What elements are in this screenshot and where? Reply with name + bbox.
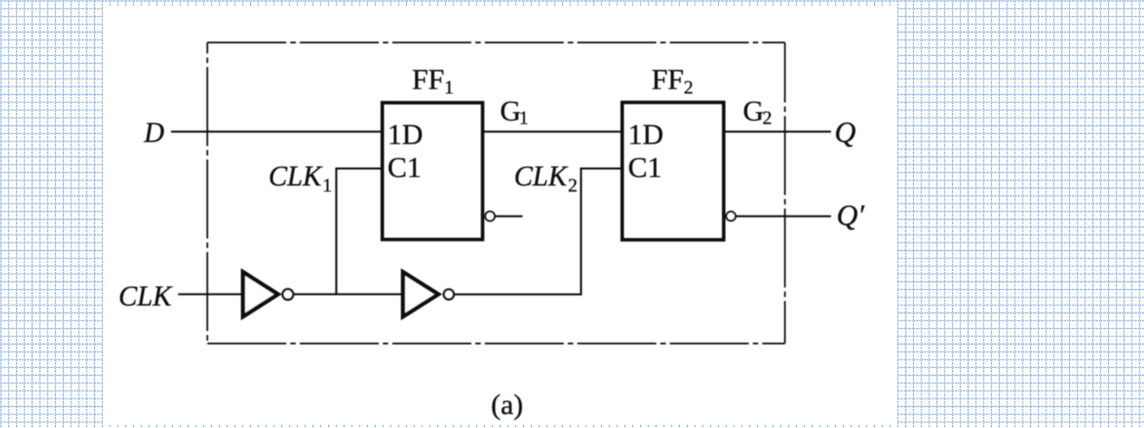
svg-text:2: 2: [684, 78, 694, 99]
net label G2: [743, 95, 772, 129]
wire Q output: [723, 131, 831, 133]
svg-text:FF: FF: [652, 64, 684, 96]
svg-text:G: G: [743, 95, 764, 127]
flip-flop FF1 box: [382, 103, 482, 240]
wire CLK2 net (U2 output to C1 of FF2): [453, 169, 622, 295]
svg-text:D: D: [143, 118, 164, 149]
svg-text:1: 1: [323, 176, 333, 197]
svg-text:(a): (a): [491, 389, 523, 421]
svg-text:G: G: [500, 95, 521, 127]
svg-text:Q′: Q′: [837, 200, 865, 232]
inverter U2: [403, 272, 454, 317]
net label G1: [500, 95, 529, 129]
svg-text:1: 1: [444, 78, 454, 99]
inverted output bubble of FF1: [485, 212, 494, 221]
svg-text:CLK: CLK: [269, 162, 323, 193]
svg-text:CLK: CLK: [119, 281, 173, 312]
wire G1 net (FF1 output to FF2 input): [482, 131, 622, 133]
label FF1: [412, 64, 454, 99]
net label CLK1: [269, 162, 333, 197]
inverted output bubble of FF2: [726, 212, 735, 221]
wire CLK1 net (junction up to C1 of FF1): [336, 169, 382, 295]
svg-text:1D: 1D: [628, 119, 663, 151]
svg-text:2: 2: [763, 108, 773, 129]
label FF2: [652, 64, 694, 99]
svg-text:1D: 1D: [388, 119, 423, 151]
wire inverter U1 output to inverter U2 input: [293, 293, 404, 295]
svg-text:CLK: CLK: [514, 162, 568, 193]
svg-text:C1: C1: [388, 152, 422, 184]
wire CLK input: [178, 293, 242, 295]
flip-flop FF2 box: [622, 102, 724, 239]
boundary box (dash-dot frame): [207, 43, 785, 344]
svg-text:C1: C1: [628, 152, 662, 184]
net label CLK2: [514, 162, 578, 197]
svg-text:1: 1: [519, 108, 529, 129]
wire D input: [171, 131, 382, 133]
svg-text:Q: Q: [835, 117, 856, 149]
inverter U1: [243, 272, 293, 317]
svg-text:2: 2: [568, 176, 578, 197]
stub wire from FF1 inverted output: [495, 215, 523, 217]
wire Q' output: [736, 215, 832, 217]
svg-text:FF: FF: [412, 64, 444, 96]
